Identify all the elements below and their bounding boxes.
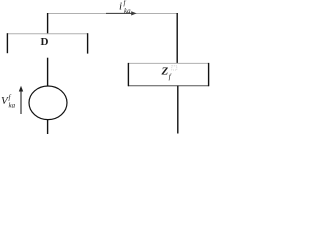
label Zf <box>161 65 177 81</box>
wire D block to source <box>47 58 49 87</box>
voltage arrow V_ka^f <box>19 86 23 114</box>
svg-text:f: f <box>9 94 12 102</box>
svg-text:i: i <box>119 1 122 13</box>
svg-text:D: D <box>41 36 49 48</box>
label V_ka^f <box>1 94 16 110</box>
svg-text:ka: ka <box>9 102 16 110</box>
svg-text:f: f <box>169 72 172 81</box>
wire below source <box>47 119 49 134</box>
wire below Zf box <box>177 86 179 134</box>
voltage source circle <box>29 86 67 120</box>
svg-text:Z: Z <box>161 65 169 77</box>
svg-text:ka: ka <box>124 7 131 15</box>
impedance Zf box <box>128 63 209 86</box>
wire right vertical from top bus to Zf box <box>176 13 178 64</box>
D block bracket <box>7 33 88 53</box>
wire left vertical from top bus to D block <box>47 13 49 34</box>
label i_ka^f <box>119 0 131 15</box>
current arrow i_ka^f <box>106 11 137 15</box>
wire top horizontal <box>47 13 178 15</box>
